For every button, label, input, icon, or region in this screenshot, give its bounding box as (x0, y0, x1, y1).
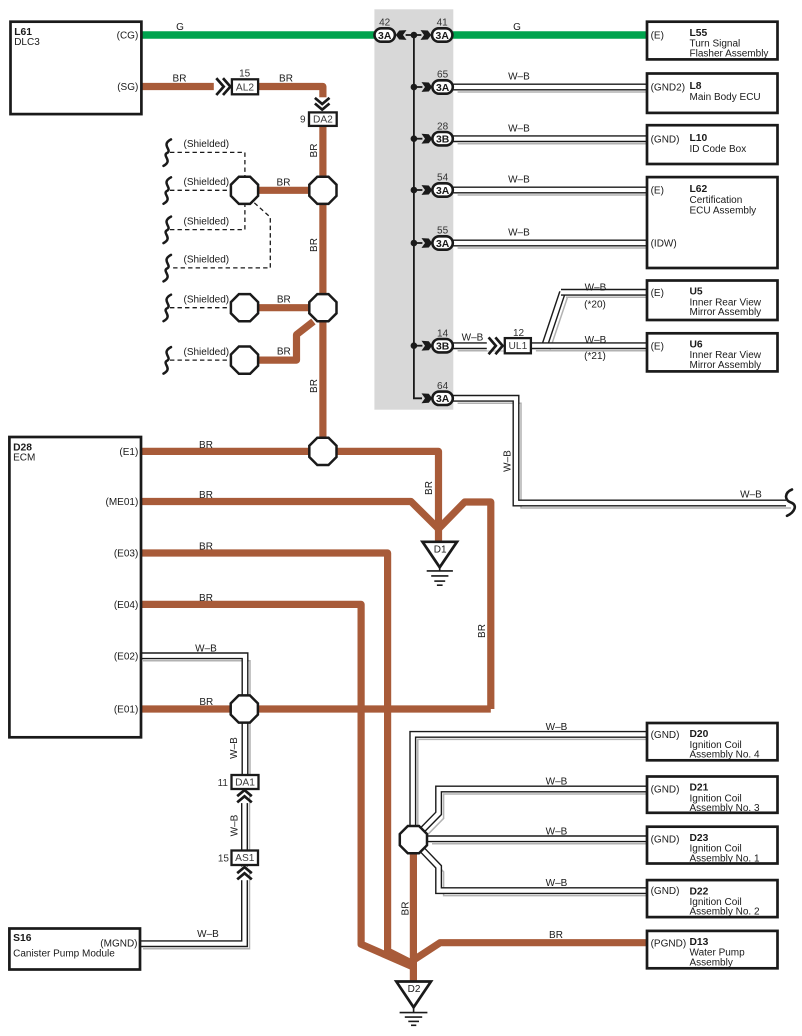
wire W-B : 54/3A to L62 (E) (453, 187, 648, 194)
svg-text:Flasher Assembly: Flasher Assembly (690, 48, 769, 59)
connector AS1 (232, 851, 259, 866)
connector chevrons below DA1 (240, 790, 249, 804)
svg-text:(E04): (E04) (114, 600, 138, 611)
wire W-B : UL1 branch up to U5 (E) (545, 292, 563, 344)
svg-text:(Shielded): (Shielded) (184, 295, 230, 306)
connector 28/3B (432, 132, 452, 145)
wire BR : ECM (ME01) to D1 (138, 502, 439, 529)
shield dashed line row3 (170, 205, 245, 230)
svg-text:(Shielded): (Shielded) (184, 139, 230, 150)
connector 42/3A (375, 28, 395, 41)
svg-text:(E): (E) (651, 186, 664, 197)
box U5 Inner Rear View Mirror Assembly (647, 281, 778, 321)
svg-text:ECM: ECM (13, 452, 35, 463)
shield junction octagon ignition coils (400, 826, 427, 853)
svg-text:(GND): (GND) (651, 886, 680, 897)
svg-text:UL1: UL1 (509, 341, 528, 352)
svg-text:3B: 3B (436, 342, 450, 353)
svg-text:3B: 3B (436, 135, 450, 146)
wire BR : ECM (E01) (138, 705, 491, 712)
svg-text:(ME01): (ME01) (106, 497, 139, 508)
svg-text:(E): (E) (651, 288, 664, 299)
svg-text:(Shielded): (Shielded) (184, 255, 230, 266)
connector 55/3A (432, 236, 452, 249)
svg-text:BR: BR (309, 144, 320, 158)
shield dashed line row1 (170, 152, 245, 176)
arrow into branch connector y=243 (422, 238, 433, 248)
svg-text:AL2: AL2 (236, 82, 254, 93)
svg-text:W–B: W–B (585, 283, 607, 294)
svg-text:(PGND): (PGND) (651, 938, 687, 949)
svg-text:L62: L62 (690, 184, 708, 195)
svg-text:G: G (513, 22, 521, 33)
svg-text:W–B: W–B (229, 737, 240, 759)
svg-text:65: 65 (437, 70, 449, 81)
svg-text:3A: 3A (436, 239, 450, 250)
svg-text:(E03): (E03) (114, 549, 138, 560)
wire W-B : DA1 to AS1 (241, 789, 248, 851)
svg-text:(E01): (E01) (114, 705, 138, 716)
svg-text:S16: S16 (13, 933, 32, 944)
svg-text:(GND2): (GND2) (651, 83, 685, 94)
wire W-B : 28/3B to L10 (GND) (453, 135, 648, 142)
wire break squiggle at right edge (786, 490, 795, 516)
box S16 Canister Pump Module (9, 929, 140, 970)
svg-text:DA2: DA2 (313, 115, 333, 126)
svg-text:W–B: W–B (585, 335, 607, 346)
connector chevrons below AS1 (240, 867, 249, 881)
svg-text:BR: BR (549, 930, 563, 941)
svg-text:54: 54 (437, 173, 449, 184)
svg-text:W–B: W–B (197, 929, 219, 940)
svg-text:D20: D20 (690, 729, 709, 740)
svg-text:(E): (E) (651, 341, 664, 352)
svg-text:Assembly: Assembly (690, 958, 733, 969)
box D23 Ignition Coil Assembly No. 1 (647, 827, 778, 864)
svg-text:42: 42 (379, 18, 391, 29)
wire BR : ECM (E1) to D1 (138, 451, 439, 527)
svg-text:3A: 3A (436, 186, 450, 197)
box L62 Certification ECU Assembly (647, 177, 778, 268)
connector 14/3B (432, 339, 452, 352)
svg-text:3A: 3A (436, 31, 450, 42)
svg-text:BR: BR (309, 379, 320, 393)
shield junction octagon on E1 line (309, 438, 336, 465)
arrow into branch connector y=190 (422, 185, 433, 195)
svg-text:W–B: W–B (546, 826, 568, 837)
ground D2 (396, 982, 431, 1008)
wire BR : shield octagon 1 to octagon 2 (245, 187, 323, 194)
box L8 Main Body ECU (647, 74, 778, 113)
svg-text:BR: BR (279, 74, 293, 85)
svg-text:DLC3: DLC3 (14, 37, 40, 48)
svg-text:(Shielded): (Shielded) (184, 347, 230, 358)
svg-text:W–B: W–B (508, 175, 530, 186)
arrow into branch connector y=138.7 (422, 134, 433, 144)
svg-text:3A: 3A (436, 83, 450, 94)
wire W-B : AS1 to S16 (MGND) (138, 865, 245, 944)
svg-text:W–B: W–B (546, 722, 568, 733)
svg-text:W–B: W–B (508, 123, 530, 134)
arrow into 42/3A (396, 30, 407, 40)
node line inside junction band (406, 34, 422, 36)
svg-text:(E): (E) (651, 31, 664, 42)
svg-text:9: 9 (300, 114, 306, 125)
svg-text:D22: D22 (690, 886, 709, 897)
svg-text:W–B: W–B (546, 878, 568, 889)
svg-text:3A: 3A (436, 394, 450, 405)
svg-text:(*20): (*20) (584, 299, 606, 310)
shield brace row6 (164, 347, 172, 374)
svg-text:3A: 3A (378, 31, 392, 42)
connector 41/3A (432, 28, 452, 41)
svg-text:11: 11 (218, 778, 229, 789)
wire BR : shield octagon 5 up to octagon 4 (245, 322, 314, 361)
svg-text:BR: BR (199, 440, 213, 451)
wire W-B : coil octagon to D20 (GND) (413, 734, 648, 829)
arrow into branch connector y=87 (422, 82, 433, 92)
wire G : junction 41/3A to L55 (E) (453, 31, 649, 39)
svg-text:(SG): (SG) (117, 82, 138, 93)
svg-text:W–B: W–B (195, 643, 217, 654)
svg-text:W–B: W–B (462, 333, 484, 344)
shield junction octagon 3 (231, 294, 258, 321)
arrow into branch connector y=345.7 (422, 341, 433, 351)
connector 64/3A (432, 392, 452, 405)
wire W-B : 65/3A to L8 (GND2) (453, 84, 648, 91)
svg-text:Canister Pump Module: Canister Pump Module (13, 948, 115, 959)
svg-text:(*21): (*21) (584, 351, 606, 362)
svg-text:(Shielded): (Shielded) (184, 216, 230, 227)
svg-text:D23: D23 (690, 833, 709, 844)
svg-text:BR: BR (277, 177, 291, 188)
wire BR : D13 Water Pump (PGND) to D2 (414, 943, 648, 960)
wire W-B : to U5 (E) (561, 289, 648, 296)
wire shadows (458, 91, 653, 93)
wire W-B : coil octagon to D23 (GND) (427, 835, 648, 842)
box L10 ID Code Box (647, 125, 778, 164)
svg-text:D13: D13 (690, 937, 709, 948)
connector DA1 (232, 775, 259, 789)
shield brace row5 (164, 295, 172, 322)
wire G : DLC3 (CG) to junction 42/3A (138, 31, 378, 39)
wire BR : ECM (E03) down to D2 (138, 553, 413, 964)
svg-text:(GND): (GND) (651, 785, 680, 796)
svg-text:BR: BR (477, 624, 488, 638)
svg-text:W–B: W–B (230, 814, 241, 836)
shield junction octagon 5 (231, 347, 258, 374)
connector 54/3A (432, 183, 452, 196)
svg-text:BR: BR (309, 238, 320, 252)
wire BR : ECM (E04) down to D2 (138, 604, 412, 966)
svg-text:W–B: W–B (740, 489, 762, 500)
svg-text:BR: BR (277, 347, 291, 358)
svg-text:L8: L8 (690, 81, 702, 92)
shield brace row3 (164, 217, 172, 244)
svg-text:Mirror Assembly: Mirror Assembly (690, 360, 762, 371)
shield dashed diagonal from octagon1 to row4 (170, 203, 270, 268)
shield brace row2 (164, 177, 172, 204)
connector chevrons before AL2 (214, 82, 232, 92)
svg-text:Main Body ECU: Main Body ECU (690, 92, 761, 103)
svg-text:(CG): (CG) (117, 31, 139, 42)
svg-text:D1: D1 (434, 544, 447, 555)
shield brace row4 (164, 255, 172, 282)
wire W-B : 55/3A to L62 (IDW) (453, 240, 648, 247)
shield junction octagon 2 (309, 177, 336, 204)
connector chevrons above DA2 (318, 97, 327, 112)
svg-text:(E02): (E02) (114, 651, 138, 662)
svg-text:(E1): (E1) (119, 447, 138, 458)
svg-text:ID Code Box: ID Code Box (690, 144, 747, 155)
wire W-B : 64/3A long run to right edge (453, 398, 786, 503)
box D21 Ignition Coil Assembly No. 3 (647, 777, 778, 813)
box D20 Ignition Coil Assembly No. 4 (647, 723, 778, 760)
wire W-B : coil octagon to D21 (GND) (423, 789, 648, 829)
svg-text:(IDW): (IDW) (651, 239, 677, 250)
svg-text:D2: D2 (408, 984, 421, 995)
shield dashed line row6 (170, 359, 231, 361)
svg-text:BR: BR (400, 902, 411, 916)
svg-text:BR: BR (199, 542, 213, 553)
svg-text:L10: L10 (690, 133, 708, 144)
arrow into branch connector y=398.3 (422, 393, 433, 403)
svg-text:Assembly No. 4: Assembly No. 4 (690, 750, 760, 761)
shield dashed line row5 (170, 307, 231, 309)
svg-text:BR: BR (199, 697, 213, 708)
shield brace row1 (164, 139, 172, 166)
wire W-B : 14/3B to UL1 (453, 342, 505, 349)
svg-text:BR: BR (173, 74, 187, 85)
svg-text:L55: L55 (690, 28, 708, 39)
shield junction octagon 4 (309, 294, 336, 321)
junction-connector gray band 3A/3B (374, 9, 453, 409)
box D28 ECM (9, 437, 141, 737)
svg-text:W–B: W–B (546, 777, 568, 788)
shield dashed line row2 (170, 189, 231, 191)
wire BR : coil octagon down to ground D2 (410, 852, 417, 982)
svg-text:(GND): (GND) (651, 134, 680, 145)
junction dots (411, 32, 418, 39)
wire W-B : coil octagon to D22 (GND) (423, 850, 649, 891)
svg-text:55: 55 (437, 226, 449, 237)
svg-text:64: 64 (437, 381, 449, 392)
svg-text:W–B: W–B (503, 450, 514, 472)
shield junction octagon on E01 line (231, 695, 258, 722)
svg-text:41: 41 (437, 18, 449, 29)
box L61 DLC3 (11, 22, 142, 114)
box U6 Inner Rear View Mirror Assembly (647, 333, 778, 371)
svg-text:(MGND): (MGND) (100, 938, 137, 949)
box D13 Water Pump Assembly (647, 931, 778, 968)
svg-text:G: G (176, 22, 184, 33)
svg-text:12: 12 (513, 328, 525, 339)
wire BR : DLC3 (SG) via AL2 to DA2 (138, 87, 323, 113)
svg-text:U5: U5 (690, 287, 703, 298)
wire BR : stub into ground D1 (435, 526, 442, 542)
svg-text:AS1: AS1 (235, 853, 255, 864)
svg-text:14: 14 (437, 328, 449, 339)
wire BR : shield octagon 3 to octagon 4 (245, 304, 323, 311)
arrow into 41/3A (421, 30, 432, 40)
svg-text:Assembly No. 3: Assembly No. 3 (690, 803, 760, 814)
wire W-B : ECM (E02) down to DA1 (138, 656, 245, 775)
box L55 Turn Signal Flasher Assembly (647, 22, 778, 60)
svg-text:BR: BR (277, 294, 291, 305)
svg-text:Assembly No. 1: Assembly No. 1 (690, 853, 760, 864)
wire BR : DA2 down through shield octagons to E1 junction (319, 126, 326, 452)
svg-text:BR: BR (199, 490, 213, 501)
svg-text:(GND): (GND) (651, 834, 680, 845)
svg-text:Assembly No. 2: Assembly No. 2 (690, 907, 760, 918)
svg-text:DA1: DA1 (235, 778, 255, 789)
connector chevrons before UL1 (487, 341, 505, 351)
svg-text:U6: U6 (690, 340, 703, 351)
svg-text:D21: D21 (690, 783, 709, 794)
svg-text:15: 15 (218, 854, 230, 865)
box D22 Ignition Coil Assembly No. 2 (647, 880, 778, 917)
connector 65/3A (432, 80, 452, 93)
svg-text:15: 15 (239, 69, 251, 80)
wire W-B : UL1 to U6 (E) (531, 342, 648, 349)
connector DA2 (309, 112, 337, 126)
shield junction octagon 1 (231, 177, 258, 204)
svg-text:(Shielded): (Shielded) (184, 177, 230, 188)
svg-text:BR: BR (199, 593, 213, 604)
svg-text:(GND): (GND) (651, 730, 680, 741)
connector AL2 (232, 79, 258, 94)
svg-text:W–B: W–B (508, 228, 530, 239)
svg-text:Mirror Assembly: Mirror Assembly (690, 307, 762, 318)
svg-text:W–B: W–B (508, 72, 530, 83)
svg-text:28: 28 (437, 121, 449, 132)
connector UL1 (505, 338, 531, 353)
ground D1 (423, 542, 458, 568)
svg-text:ECU Assembly: ECU Assembly (690, 206, 757, 217)
wire BR : D1 junction right branch to (E01) line (439, 502, 491, 709)
svg-text:BR: BR (424, 481, 435, 495)
